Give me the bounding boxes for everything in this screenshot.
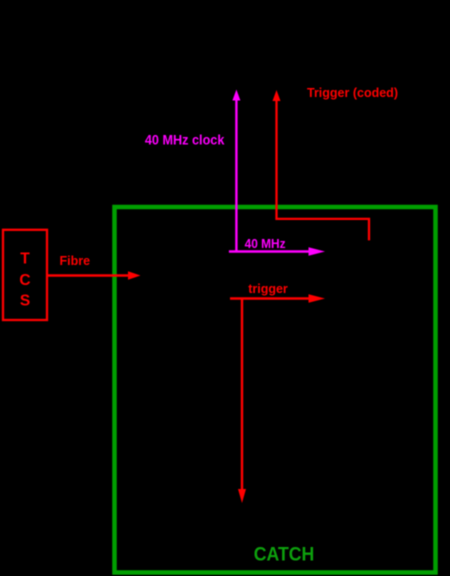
arrowhead Trigger (coded) up — [273, 90, 281, 101]
CATCH module box — [115, 207, 436, 573]
svg-text:trigger: trigger — [248, 282, 288, 296]
arrowhead 40 MHz right — [309, 247, 326, 255]
arrowhead 40 MHz clock up — [232, 90, 240, 101]
svg-text:C: C — [19, 272, 30, 289]
wire trigger vertical down inside CATCH — [241, 299, 243, 491]
TCS module box — [3, 230, 47, 320]
wire trigger horizontal inside CATCH — [230, 297, 310, 299]
wire 40 MHz clock vertical — [235, 98, 237, 253]
wire Fibre TCS to CATCH — [47, 274, 129, 276]
svg-text:40 MHz clock: 40 MHz clock — [145, 133, 225, 148]
svg-text:Trigger (coded): Trigger (coded) — [307, 86, 398, 100]
arrowhead Fibre — [128, 271, 141, 279]
svg-text:Fibre: Fibre — [60, 254, 91, 268]
svg-text:T: T — [20, 250, 30, 267]
wire Trigger (coded) polyline — [277, 99, 370, 240]
svg-text:40 MHz: 40 MHz — [245, 237, 286, 251]
arrowhead trigger right — [309, 294, 326, 302]
wire 40 MHz horizontal inside CATCH — [229, 250, 310, 252]
svg-text:S: S — [20, 292, 30, 309]
arrowhead trigger down — [238, 489, 246, 503]
svg-text:CATCH: CATCH — [254, 544, 314, 566]
